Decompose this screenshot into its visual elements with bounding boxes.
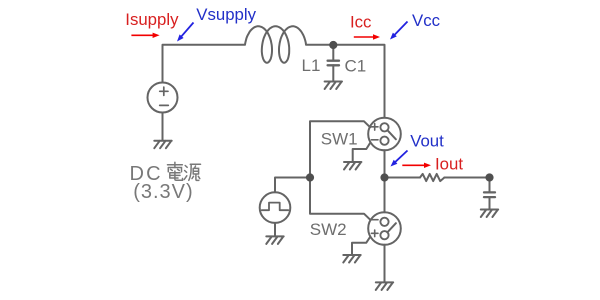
voltage arrow Vcc bbox=[394, 22, 408, 36]
node Vout bbox=[380, 173, 388, 181]
current arrow Icc bbox=[354, 36, 375, 38]
kanji DEN (electric) drawn strokes bbox=[168, 162, 183, 180]
wire bbox=[274, 223, 276, 236]
wire bbox=[332, 45, 334, 60]
wire SW2 control - bbox=[310, 178, 370, 220]
ground bbox=[266, 236, 283, 244]
ground bbox=[325, 82, 342, 90]
svg-text:Vcc: Vcc bbox=[412, 11, 440, 30]
svg-text:SW1: SW1 bbox=[321, 130, 358, 149]
svg-text:Vout: Vout bbox=[410, 131, 444, 150]
svg-text:Isupply: Isupply bbox=[125, 10, 179, 29]
wire bbox=[162, 113, 164, 141]
ground bbox=[344, 162, 361, 170]
svg-text:Iout: Iout bbox=[435, 154, 463, 173]
ground bbox=[343, 255, 360, 263]
node junction dots bbox=[306, 41, 494, 182]
wire bbox=[275, 178, 310, 193]
ground bbox=[376, 282, 393, 290]
voltage source V1 DC bbox=[148, 83, 178, 113]
inductor L1 bbox=[245, 26, 306, 62]
svg-text:L1: L1 bbox=[302, 56, 321, 75]
node control bbox=[306, 173, 314, 181]
capacitor C1 bbox=[328, 61, 339, 66]
svg-text:SW2: SW2 bbox=[310, 220, 347, 239]
wire bbox=[489, 197, 491, 209]
wire bbox=[384, 150, 386, 212]
ground bbox=[481, 210, 498, 218]
wire bbox=[384, 245, 386, 282]
resistor R1 bbox=[420, 174, 444, 181]
wire bbox=[332, 65, 334, 81]
wire bbox=[163, 45, 246, 83]
current arrow Iout bbox=[402, 164, 425, 166]
wire SW2 control + to ground bbox=[352, 237, 370, 255]
wire bbox=[489, 179, 491, 192]
node Vcc bbox=[329, 41, 337, 49]
current arrow Isupply bbox=[131, 33, 431, 168]
switch SW2 bbox=[368, 212, 401, 245]
kanji GEN (source) drawn strokes bbox=[184, 164, 200, 180]
wire output bbox=[385, 177, 421, 179]
wire bbox=[306, 45, 385, 118]
svg-text:Icc: Icc bbox=[350, 12, 371, 31]
wire bbox=[444, 177, 489, 179]
node output cap bbox=[485, 173, 493, 181]
pulse source V2 bbox=[260, 192, 291, 223]
capacitor C2 bbox=[484, 192, 495, 197]
wire SW1 control - to ground bbox=[353, 143, 371, 162]
svg-text:(3.3V): (3.3V) bbox=[133, 181, 193, 203]
wire SW1 control + bbox=[310, 121, 370, 177]
switch SW1 bbox=[368, 118, 401, 151]
svg-text:Vsupply: Vsupply bbox=[196, 5, 256, 24]
voltage arrow Vsupply bbox=[181, 23, 194, 38]
voltage arrow Vout bbox=[395, 151, 408, 163]
svg-text:C1: C1 bbox=[345, 57, 367, 76]
ground bbox=[154, 141, 171, 149]
